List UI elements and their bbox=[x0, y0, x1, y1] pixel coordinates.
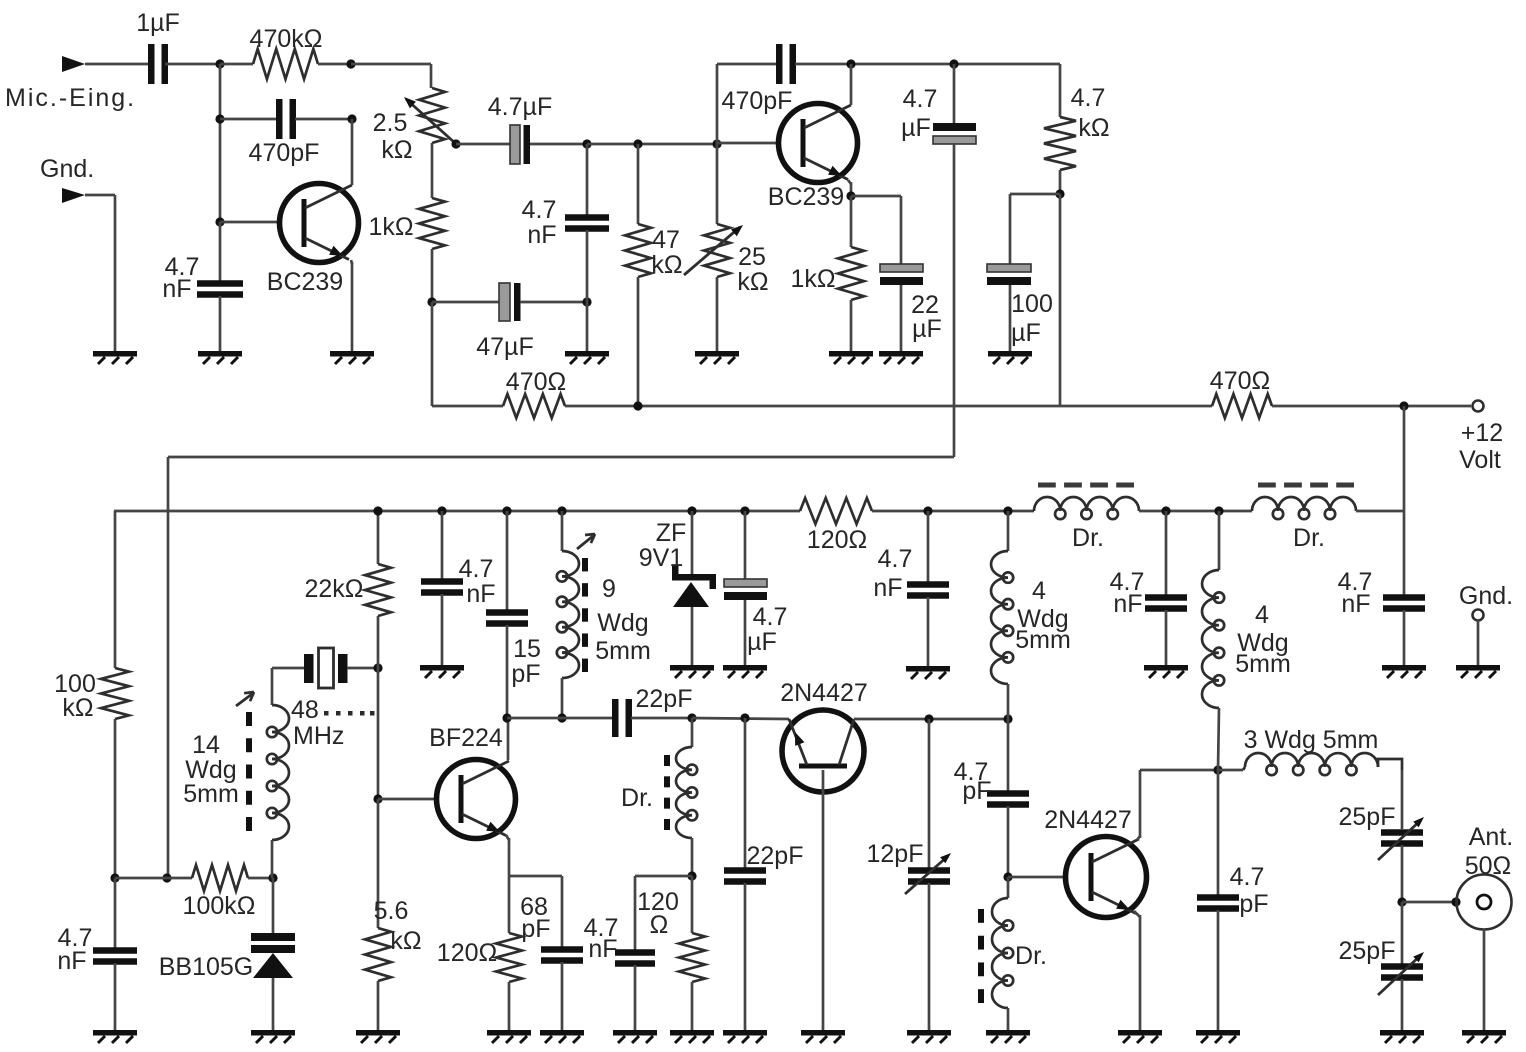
svg-text:4.7: 4.7 bbox=[878, 545, 913, 573]
terminal Gnd arrow bbox=[62, 188, 85, 203]
wire Q1 collector bbox=[351, 119, 354, 185]
node AM antenna junction bbox=[1397, 897, 1406, 906]
svg-text:47: 47 bbox=[652, 226, 680, 254]
node AD choke top bbox=[687, 713, 696, 722]
ground 120 emitter bbox=[487, 1030, 531, 1043]
ground Q1 emitter bbox=[330, 351, 374, 364]
ground 22uF bbox=[879, 351, 923, 364]
svg-text:Gnd.: Gnd. bbox=[40, 155, 94, 183]
wire stage2 rail left bbox=[717, 63, 777, 66]
node D junction 470pF right bbox=[347, 114, 356, 123]
wire gnd arrow bbox=[85, 195, 115, 351]
svg-text:120Ω: 120Ω bbox=[807, 526, 867, 554]
wire stage2 rail right bbox=[795, 63, 1060, 66]
varactor BB105G bbox=[159, 878, 295, 1030]
capacitor 4.7nF bus3 bbox=[1110, 506, 1187, 665]
svg-text:Ant.: Ant. bbox=[1469, 823, 1513, 851]
node AE junction bbox=[687, 871, 696, 880]
wire Q3 collector bbox=[507, 718, 510, 760]
wire left column bbox=[114, 511, 117, 668]
capacitor 47uF electrolytic bbox=[432, 283, 587, 361]
svg-text:µF: µF bbox=[901, 114, 931, 142]
wire Q5 emitter to ground bbox=[1134, 911, 1140, 1030]
node Y collector junction bbox=[502, 713, 511, 722]
wire pot column to +12 rail bbox=[431, 302, 434, 406]
resistor 470kOhm bbox=[220, 25, 351, 79]
capacitor 4.7nF bus2 bbox=[873, 506, 949, 666]
node AN antenna tap bbox=[1451, 897, 1460, 906]
wire bus left segment bbox=[114, 510, 800, 513]
ground 4.7pF tank bbox=[1196, 1030, 1240, 1043]
choke Dr.1 bbox=[1034, 485, 1139, 552]
svg-text:Dr.: Dr. bbox=[621, 784, 653, 812]
node K collector top bbox=[846, 59, 855, 68]
svg-text:kΩ: kΩ bbox=[390, 927, 421, 955]
svg-text:5mm: 5mm bbox=[595, 637, 651, 665]
svg-text:4.7µF: 4.7µF bbox=[488, 93, 552, 121]
svg-text:Dr.: Dr. bbox=[1015, 942, 1047, 970]
capacitor 4.7nF choke bbox=[584, 876, 692, 1030]
capacitor 22uF electrolytic bbox=[851, 196, 942, 351]
node G 47uF right bbox=[582, 297, 591, 306]
wire node B to pot column bbox=[351, 63, 431, 66]
node wiper junction bbox=[451, 139, 460, 148]
transistor Q3 BF224 bbox=[429, 724, 515, 839]
svg-text:nF: nF bbox=[162, 275, 191, 303]
svg-text:100kΩ: 100kΩ bbox=[183, 892, 256, 920]
svg-text:100: 100 bbox=[1011, 290, 1053, 318]
choke Dr vertical 1 bbox=[621, 718, 697, 876]
node M 4.7uF top bbox=[949, 59, 958, 68]
potentiometer 2.5kOhm bbox=[373, 64, 455, 198]
svg-text:4.7: 4.7 bbox=[522, 196, 557, 224]
wire base BF224 bbox=[378, 798, 437, 801]
node Z bus 9Wdg bbox=[557, 506, 566, 515]
resistor 5.6kOhm bbox=[365, 799, 422, 1030]
node AL bus coil2 bbox=[1214, 506, 1223, 515]
ground 5.6k bbox=[356, 1030, 400, 1043]
ground 25pF bbox=[1380, 1030, 1424, 1043]
ground Dr2 bbox=[986, 1030, 1030, 1043]
wire base BC239 Q1 bbox=[220, 221, 280, 224]
svg-text:25pF: 25pF bbox=[1339, 803, 1396, 831]
trimmer 12pF bbox=[867, 719, 951, 1030]
svg-text:Dr.: Dr. bbox=[1072, 524, 1104, 552]
svg-text:pF: pF bbox=[962, 777, 991, 805]
antenna connector Ant 50Ohm bbox=[1457, 823, 1514, 1030]
svg-text:kΩ: kΩ bbox=[381, 136, 412, 164]
capacitor 4.7pF interstage bbox=[954, 719, 1029, 877]
svg-text:Volt: Volt bbox=[1459, 446, 1501, 474]
ground varactor bbox=[251, 1030, 295, 1043]
potentiometer 25kOhm bbox=[684, 144, 769, 351]
terminal Mic input arrow bbox=[62, 56, 85, 72]
svg-text:12pF: 12pF bbox=[867, 840, 924, 868]
label Gnd. bbox=[40, 155, 94, 183]
svg-text:22pF: 22pF bbox=[747, 842, 804, 870]
svg-text:15: 15 bbox=[513, 635, 541, 663]
transistor Q2 BC239 bbox=[768, 104, 858, 212]
node AJ base Q5 bbox=[1003, 872, 1012, 881]
svg-text:25pF: 25pF bbox=[1339, 937, 1396, 965]
svg-text:4.7: 4.7 bbox=[903, 85, 938, 113]
choke Dr vertical 2 bbox=[981, 877, 1047, 1030]
terminal Gnd lower bbox=[1459, 582, 1513, 665]
node R junction audio in bbox=[162, 873, 171, 882]
svg-text:nF: nF bbox=[466, 580, 495, 608]
node W bus 4.7nF bbox=[437, 506, 446, 515]
ground 100uF bbox=[988, 351, 1032, 364]
transistor Q4 2N4427 bbox=[780, 679, 868, 792]
wire mic to C1 bbox=[85, 63, 150, 66]
svg-text:nF: nF bbox=[527, 221, 556, 249]
ground Q2 emitter bbox=[829, 351, 873, 364]
svg-text:3 Wdg 5mm: 3 Wdg 5mm bbox=[1244, 726, 1379, 754]
svg-text:ZF: ZF bbox=[656, 519, 687, 547]
capacitor 1uF bbox=[136, 9, 180, 84]
capacitor 4.7uF bus electrolytic bbox=[724, 511, 787, 665]
capacitor 15pF bbox=[486, 511, 541, 718]
ground Q4 base bbox=[801, 1030, 845, 1043]
svg-text:µF: µF bbox=[912, 315, 942, 343]
svg-text:5.6: 5.6 bbox=[374, 897, 409, 925]
wire Q1 emitter to ground bbox=[351, 260, 352, 351]
svg-text:2N4427: 2N4427 bbox=[780, 679, 868, 707]
capacitor 4.7nF stage2 bbox=[522, 144, 609, 302]
node AF shunt 22pF bbox=[740, 713, 749, 722]
svg-text:µF: µF bbox=[1011, 319, 1041, 347]
svg-text:nF: nF bbox=[1341, 590, 1370, 618]
svg-text:470kΩ: 470kΩ bbox=[250, 25, 323, 53]
svg-text:µF: µF bbox=[747, 628, 777, 656]
wire base Q5 bbox=[1008, 876, 1066, 879]
svg-text:470Ω: 470Ω bbox=[1210, 367, 1270, 395]
wire bus to P bbox=[1356, 510, 1404, 513]
ground antenna bbox=[1462, 1030, 1506, 1043]
node A junction bbox=[215, 59, 224, 68]
wire bus right segment bbox=[1139, 510, 1252, 513]
svg-text:nF: nF bbox=[873, 574, 902, 602]
resistor 4.7kOhm bbox=[1044, 64, 1110, 194]
node B junction bbox=[346, 59, 355, 68]
resistor 120Ohm bus bbox=[800, 498, 872, 554]
svg-text:470pF: 470pF bbox=[249, 139, 320, 167]
ground 120 choke bbox=[670, 1030, 714, 1043]
svg-text:pF: pF bbox=[511, 660, 540, 688]
wire N down to +12 rail bbox=[1059, 194, 1062, 406]
ground zener bbox=[670, 665, 714, 678]
wire Q3 emitter bbox=[506, 835, 509, 876]
choke Dr.2 bbox=[1252, 485, 1356, 552]
svg-text:BF224: BF224 bbox=[429, 724, 503, 752]
capacitor 4.7nF bus4 bbox=[1338, 511, 1425, 665]
wire audio link bbox=[168, 457, 954, 878]
node Q junction bbox=[110, 873, 119, 882]
coil 4 Wdg 5mm second bbox=[1202, 511, 1291, 770]
svg-text:pF: pF bbox=[521, 915, 550, 943]
wire Q4 base to ground bbox=[822, 770, 825, 1030]
wire to antenna bbox=[1402, 901, 1456, 904]
ground 68pF bbox=[540, 1030, 584, 1043]
node N junction bbox=[1055, 189, 1064, 198]
transistor Q5 2N4427 bbox=[1044, 806, 1146, 918]
capacitor 100uF electrolytic bbox=[987, 194, 1060, 351]
crystal 48 MHz bbox=[272, 648, 378, 750]
resistor 120Ohm emitter bbox=[437, 876, 522, 1030]
svg-text:kΩ: kΩ bbox=[62, 694, 93, 722]
wire T to base bbox=[377, 668, 380, 799]
svg-text:1µF: 1µF bbox=[136, 9, 180, 37]
resistor 470Ohm rail bbox=[432, 368, 1212, 418]
wire Q4 collector right bbox=[854, 718, 1008, 721]
svg-text:50Ω: 50Ω bbox=[1465, 852, 1512, 880]
wire 4.7nF to ground bbox=[586, 302, 589, 351]
wire audio drop bbox=[953, 144, 956, 457]
wire C1 to node A bbox=[165, 63, 220, 66]
svg-text:22pF: 22pF bbox=[636, 685, 693, 713]
svg-text:Ω: Ω bbox=[650, 911, 669, 939]
svg-text:4.7: 4.7 bbox=[753, 603, 788, 631]
ground 4.7nF input bbox=[198, 351, 242, 364]
wire collector to tank bbox=[1140, 769, 1218, 772]
node H junction bbox=[582, 139, 591, 148]
capacitor 4.7uF coupling electrolytic bbox=[456, 93, 587, 164]
wire Q5 collector bbox=[1137, 770, 1140, 840]
coil 4 Wdg 5mm first bbox=[991, 511, 1071, 719]
svg-text:5mm: 5mm bbox=[183, 780, 239, 808]
coil 9 Wdg 5mm bbox=[557, 511, 651, 718]
resistor 120Ohm choke bbox=[637, 876, 705, 1030]
node U bus 22k bbox=[373, 506, 382, 515]
svg-text:kΩ: kΩ bbox=[737, 268, 768, 296]
node I junction 47k top bbox=[633, 139, 642, 148]
ground 4.7nF bus1 bbox=[420, 665, 464, 678]
node AH junction coil1 bbox=[1003, 714, 1012, 723]
svg-text:5mm: 5mm bbox=[1015, 626, 1071, 654]
svg-text:Mic.-Eing.: Mic.-Eing. bbox=[5, 84, 136, 112]
svg-text:nF: nF bbox=[588, 935, 617, 963]
capacitor 4.7uF output electrolytic bbox=[901, 64, 976, 144]
node O rail junction bbox=[633, 401, 642, 410]
node L emitter junction bbox=[846, 191, 855, 200]
ground stage2 filter bbox=[565, 351, 609, 364]
ground 22pF shunt bbox=[723, 1030, 767, 1043]
svg-text:470pF: 470pF bbox=[722, 87, 793, 115]
svg-text:9: 9 bbox=[602, 575, 616, 603]
svg-text:1kΩ: 1kΩ bbox=[368, 213, 413, 241]
svg-text:nF: nF bbox=[57, 947, 86, 975]
resistor 47kOhm bbox=[625, 144, 683, 406]
node X bus 15pF bbox=[502, 506, 511, 515]
svg-text:22kΩ: 22kΩ bbox=[305, 575, 364, 603]
capacitor 4.7nF bus1 bbox=[421, 511, 496, 665]
svg-text:48: 48 bbox=[291, 696, 319, 724]
svg-text:Gnd.: Gnd. bbox=[1459, 582, 1513, 610]
transistor Q1 BC239 bbox=[267, 184, 359, 297]
svg-text:nF: nF bbox=[1113, 590, 1142, 618]
wire J up to stage2 top rail bbox=[716, 64, 719, 144]
ground terminal bbox=[1456, 665, 1500, 678]
svg-text:470Ω: 470Ω bbox=[506, 368, 566, 396]
node AK tank junction bbox=[1213, 765, 1222, 774]
svg-text:Wdg: Wdg bbox=[597, 609, 648, 637]
wire node A down bbox=[219, 64, 222, 222]
resistor 1kOhm Q2 bbox=[790, 196, 864, 351]
resistor 470Ohm feed bbox=[1210, 367, 1471, 418]
ground 25k bbox=[695, 351, 739, 364]
svg-text:BB105G: BB105G bbox=[159, 953, 254, 981]
svg-text:kΩ: kΩ bbox=[1078, 114, 1109, 142]
ground mic bbox=[93, 351, 137, 364]
node AG 12pF bbox=[924, 714, 933, 723]
node J junction 25k top bbox=[712, 139, 721, 148]
trimmer 25pF bottom bbox=[1339, 902, 1424, 1030]
svg-text:4.7: 4.7 bbox=[1071, 84, 1106, 112]
svg-text:4.7: 4.7 bbox=[1230, 863, 1265, 891]
svg-text:14: 14 bbox=[192, 731, 220, 759]
node AI bus coil1 bbox=[1003, 506, 1012, 515]
ground 4.7uF bus bbox=[723, 665, 767, 678]
node F 47uF left bbox=[427, 297, 436, 306]
svg-text:kΩ: kΩ bbox=[651, 251, 682, 279]
svg-text:BC239: BC239 bbox=[768, 183, 844, 211]
ground 4.7nF bus3 bbox=[1144, 665, 1188, 678]
svg-text:4: 4 bbox=[1032, 577, 1046, 605]
node C junction 470pF left bbox=[215, 114, 224, 123]
svg-text:MHz: MHz bbox=[293, 722, 344, 750]
resistor 100kOhm bias bbox=[54, 668, 129, 878]
ground Q5 emitter bbox=[1118, 1030, 1162, 1043]
node AC bus 4.7uF bbox=[740, 506, 749, 515]
ground left column bbox=[93, 1030, 137, 1043]
node P rail junction bbox=[1399, 401, 1408, 410]
capacitor 4.7nF audio bbox=[57, 878, 137, 1030]
capacitor 470pF stage2 bbox=[722, 44, 796, 115]
node V base junction bbox=[373, 794, 382, 803]
node AB bus zener bbox=[687, 506, 696, 515]
wire P down to bus bbox=[1403, 406, 1406, 511]
node AA junction 9wdg bottom bbox=[557, 713, 566, 722]
terminal +12 Volt bbox=[1459, 401, 1503, 475]
coil 3 Wdg 5mm bbox=[1218, 726, 1402, 775]
capacitor 4.7pF tank bbox=[1197, 770, 1269, 1030]
node E base junction bbox=[215, 217, 224, 226]
capacitor 68pF bbox=[509, 876, 583, 1030]
node T crystal junction bbox=[373, 663, 382, 672]
svg-text:2.5: 2.5 bbox=[373, 109, 408, 137]
ground 4.7nF choke bbox=[613, 1030, 657, 1043]
wire base to Q2 bbox=[717, 142, 779, 145]
svg-text:25: 25 bbox=[738, 243, 766, 271]
svg-text:2N4427: 2N4427 bbox=[1044, 806, 1132, 834]
wire bus mid segment bbox=[872, 510, 1034, 513]
node S varactor junction bbox=[268, 873, 277, 882]
trimmer 25pF top bbox=[1339, 770, 1424, 902]
resistor 1kOhm Q1 bbox=[368, 198, 445, 302]
resistor 100kOhm audio bbox=[115, 865, 273, 920]
svg-text:5mm: 5mm bbox=[1235, 650, 1291, 678]
wire 22pF node to Q4 bbox=[692, 718, 789, 719]
svg-text:120Ω: 120Ω bbox=[437, 939, 497, 967]
capacitor 4.7nF input bbox=[162, 222, 243, 351]
ground 12pF bbox=[907, 1030, 951, 1043]
svg-text:4.7: 4.7 bbox=[459, 555, 494, 583]
capacitor 470pF feedback bbox=[220, 99, 352, 167]
ground 4.7nF bus4 bbox=[1382, 665, 1426, 678]
svg-text:47µF: 47µF bbox=[476, 333, 533, 361]
coil 14 Wdg 5mm bbox=[183, 668, 289, 878]
capacitor 22pF coupling bbox=[507, 685, 692, 737]
svg-text:BC239: BC239 bbox=[267, 268, 343, 296]
ground 4.7nF bus2 bbox=[906, 666, 950, 679]
svg-text:Dr.: Dr. bbox=[1293, 524, 1325, 552]
label Mic.-Eing. bbox=[5, 84, 136, 112]
resistor 22kOhm bbox=[305, 511, 392, 668]
wire base line H-I bbox=[587, 143, 717, 146]
wire Q2 collector bbox=[850, 64, 853, 105]
svg-text:+12: +12 bbox=[1461, 419, 1503, 447]
svg-text:pF: pF bbox=[1239, 890, 1268, 918]
svg-text:4: 4 bbox=[1255, 601, 1269, 629]
svg-text:9V1: 9V1 bbox=[639, 544, 683, 572]
wire Q2 emitter bbox=[848, 180, 851, 196]
zener diode ZF 9V1 bbox=[639, 511, 716, 665]
svg-text:1kΩ: 1kΩ bbox=[790, 265, 835, 293]
capacitor 22pF shunt bbox=[724, 718, 803, 1030]
